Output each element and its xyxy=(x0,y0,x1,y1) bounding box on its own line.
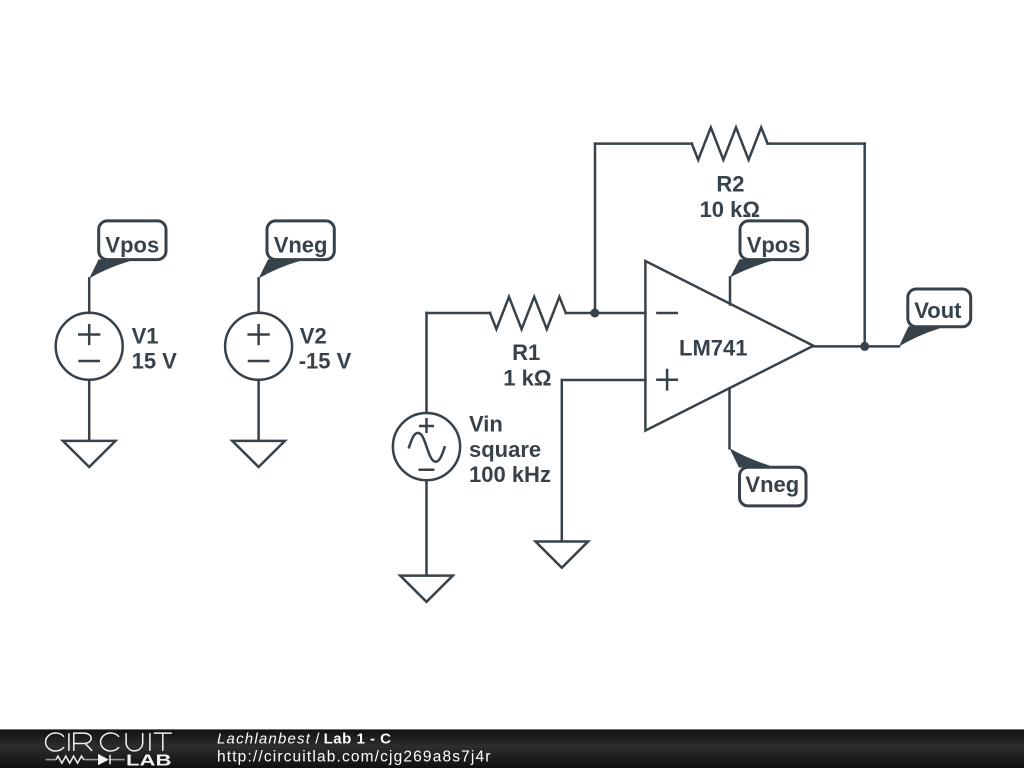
svg-text:Vneg: Vneg xyxy=(274,233,328,258)
svg-text:LM741: LM741 xyxy=(679,336,747,361)
svg-text:Vpos: Vpos xyxy=(747,233,801,258)
svg-text:R1: R1 xyxy=(512,340,540,365)
svg-text:LAB: LAB xyxy=(126,752,172,768)
svg-text:15 V: 15 V xyxy=(132,349,178,374)
svg-text:square: square xyxy=(469,437,541,462)
svg-text:V1: V1 xyxy=(132,324,159,349)
svg-text:10 kΩ: 10 kΩ xyxy=(700,197,760,222)
svg-text:Vneg: Vneg xyxy=(745,472,799,497)
svg-text:-15 V: -15 V xyxy=(299,349,352,374)
svg-text:Vout: Vout xyxy=(914,298,962,323)
svg-text:1 kΩ: 1 kΩ xyxy=(503,366,551,391)
svg-text:100 kHz: 100 kHz xyxy=(469,462,551,487)
svg-text:V2: V2 xyxy=(300,324,327,349)
svg-text:Vin: Vin xyxy=(469,412,503,437)
svg-text:http://circuitlab.com/cjg269a8: http://circuitlab.com/cjg269a8s7j4r xyxy=(217,748,492,765)
svg-text:Vpos: Vpos xyxy=(105,233,159,258)
svg-text:R2: R2 xyxy=(716,171,744,196)
svg-text:Lachlanbest / Lab 1 - C: Lachlanbest / Lab 1 - C xyxy=(217,730,391,747)
